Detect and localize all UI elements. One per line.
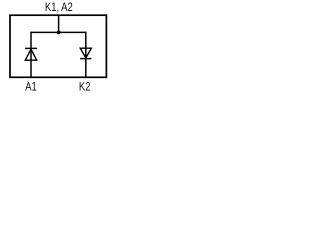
wire left branch <box>30 32 32 78</box>
package outline <box>10 15 106 77</box>
svg-text:K2: K2 <box>79 80 91 93</box>
svg-text:A1: A1 <box>25 81 37 93</box>
wire inner horizontal <box>31 31 86 33</box>
node K1,A2 junction <box>57 31 61 35</box>
diode D1 (left, cathode up) <box>25 48 37 60</box>
wire top pin K1,A2 <box>58 15 60 32</box>
svg-text:K1, A2: K1, A2 <box>45 1 73 14</box>
wire right branch <box>85 32 87 78</box>
diode D2 (right, cathode down) <box>80 48 91 58</box>
